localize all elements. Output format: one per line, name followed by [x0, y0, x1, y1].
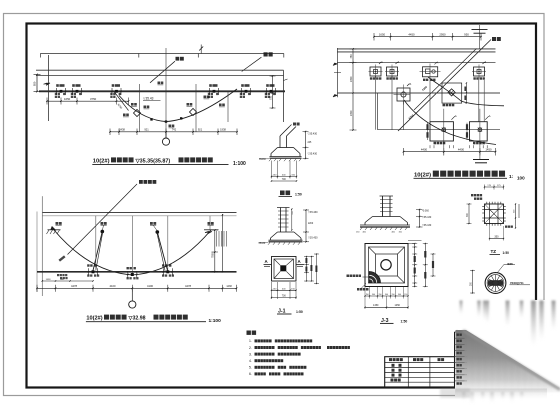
plan3 cluster 93.0: [92, 270, 95, 273]
right vertical dims: [214, 230, 216, 272]
svg-text:4100: 4100: [110, 284, 116, 288]
J-2 bottom dims: [364, 287, 366, 299]
strut nodes: [101, 230, 105, 234]
svg-text:742: 742: [172, 128, 177, 132]
plan3 deep arc: [54, 230, 211, 275]
svg-text:4400: 4400: [458, 148, 465, 152]
A-A cut marks: [264, 264, 272, 266]
svg-text:1650: 1650: [64, 97, 71, 101]
plan3 top lines: [42, 212, 237, 214]
D1 right vertical dim: [305, 132, 307, 159]
J-2 plan square: [365, 244, 408, 287]
plan1 main wall line: [39, 90, 285, 92]
svg-text:1650: 1650: [379, 32, 386, 36]
plan2 left vertical dimension: [352, 49, 354, 130]
label M4 leader: [176, 57, 180, 61]
right support hatch: [204, 229, 219, 231]
svg-text:3.: 3.: [249, 352, 252, 356]
D2 footing: [278, 231, 295, 233]
svg-text:2200: 2200: [308, 223, 314, 225]
svg-text:A: A: [437, 61, 439, 65]
svg-text:10(2#): 10(2#): [86, 316, 102, 322]
svg-text:▽35.430: ▽35.430: [308, 211, 318, 214]
plan2 lower arc: [404, 100, 496, 145]
svg-text:1:50: 1:50: [503, 251, 510, 255]
plan1 arc dimension line: [110, 131, 237, 133]
svg-text:750: 750: [269, 95, 272, 100]
svg-text:1:100: 1:100: [209, 318, 222, 324]
left support hatch: [48, 229, 61, 231]
svg-text:1938: 1938: [220, 128, 226, 132]
big footing at 469.5,121.7: [470, 122, 488, 141]
plan2 left axis vertical: [337, 48, 339, 97]
axis symbol top: [479, 25, 481, 49]
TZ left labels: [471, 194, 473, 196]
svg-text:▽35.430: ▽35.430: [422, 216, 432, 219]
J-2 right dim: [419, 210, 421, 228]
fan labels: [363, 276, 370, 278]
diamond node left: [133, 109, 140, 116]
svg-text:150: 150: [392, 294, 395, 296]
TZ top dims: [485, 186, 504, 188]
svg-text:1:50: 1:50: [296, 310, 303, 314]
svg-text:J-3: J-3: [381, 318, 389, 324]
svg-text:A: A: [485, 60, 487, 64]
svg-text:▽32.98: ▽32.98: [128, 316, 146, 322]
big footing at 430.0,121.7: [430, 122, 453, 141]
plan2 mid horizontal: [337, 92, 500, 94]
small footing at 392.0,71.5: [387, 67, 398, 76]
svg-text:4400: 4400: [421, 148, 428, 152]
svg-text:1:100: 1:100: [233, 161, 246, 167]
arc small nodes: [150, 118, 152, 120]
left grid vertical: [48, 55, 50, 121]
detail D1: bent column section: [279, 136, 281, 148]
svg-text:2450: 2450: [350, 76, 353, 82]
svg-text:1.: 1.: [249, 339, 252, 343]
svg-text:2.: 2.: [249, 346, 252, 350]
svg-text:35430: 35430: [259, 158, 266, 161]
svg-text:10(2#): 10(2#): [414, 172, 431, 178]
svg-text:-0.060: -0.060: [422, 210, 429, 213]
svg-text:3750: 3750: [90, 97, 97, 101]
svg-text:2438: 2438: [119, 128, 125, 132]
watermark white base: [455, 300, 560, 406]
wide footing at 430: [423, 67, 438, 77]
svg-text:▽35.430: ▽35.430: [422, 224, 432, 227]
pile circle: [485, 273, 506, 294]
svg-text:A: A: [398, 60, 400, 64]
D2 right vertical dim: [305, 210, 307, 242]
svg-text:A: A: [410, 82, 412, 86]
plan1 dimension line lower-left: [47, 100, 129, 102]
column cluster x=214: [213, 90, 216, 93]
svg-text:1:50: 1:50: [295, 193, 302, 197]
TZ column section: [485, 204, 504, 224]
svg-text:700: 700: [282, 178, 287, 181]
quarter fan hatch: [369, 272, 380, 283]
svg-text:4.: 4.: [249, 359, 252, 363]
left arrow: [44, 83, 51, 85]
svg-text:1450: 1450: [395, 304, 401, 307]
svg-text:100: 100: [517, 176, 525, 181]
plan2 upper arc: [428, 77, 504, 106]
svg-text:1:50: 1:50: [401, 319, 408, 323]
svg-text:▽35.430: ▽35.430: [308, 153, 318, 156]
svg-text:2450: 2450: [350, 110, 353, 116]
plan1 grid verticals: [139, 84, 141, 132]
plan3 dim line: [37, 287, 237, 289]
footing with circle (column TZ): [397, 88, 410, 101]
svg-text:▽35.430: ▽35.430: [308, 237, 318, 240]
svg-text:2950: 2950: [439, 32, 446, 36]
svg-text:300: 300: [385, 294, 388, 296]
svg-text:150: 150: [366, 294, 369, 296]
small footing at 479.0,71.5: [474, 67, 485, 76]
svg-text:921: 921: [198, 128, 203, 132]
svg-text:1450: 1450: [373, 304, 379, 307]
svg-text:850: 850: [33, 81, 37, 86]
svg-text:1:: 1:: [509, 174, 514, 180]
D1 extension lines + dims: [271, 161, 273, 179]
svg-text:1450: 1450: [485, 148, 492, 152]
detail D2: column section: [277, 207, 290, 209]
svg-text:700: 700: [282, 295, 287, 298]
title block left edge: [454, 332, 456, 387]
watermark drips: [460, 301, 556, 347]
small square structure: [442, 83, 462, 103]
svg-text:▽35.35(35.87): ▽35.35(35.87): [135, 159, 171, 165]
plan1 arc (curved beam): [119, 89, 237, 122]
plan2 top double wall lines: [337, 48, 496, 50]
svg-text:A: A: [455, 114, 457, 118]
svg-text:▽35.430: ▽35.430: [308, 133, 318, 136]
plan3 circle: [131, 288, 133, 301]
label ramp top: [264, 52, 268, 56]
column cluster x=271: [270, 90, 273, 93]
svg-text:4100: 4100: [147, 284, 153, 288]
J-2 right dim chains: [414, 244, 416, 287]
TZ bottom dim: [489, 226, 491, 241]
watermark main triangle: [456, 330, 560, 393]
small upper dim segment: [42, 280, 93, 282]
J-1 bottom dims: [271, 282, 273, 299]
svg-text:350: 350: [494, 236, 499, 239]
left vertical dimension: [36, 75, 38, 92]
plan2 long verticals: [375, 76, 377, 130]
D1 footing: [278, 147, 294, 149]
svg-text:7850: 7850: [212, 252, 215, 258]
diagonal 6250: [114, 92, 129, 111]
column cluster x=61: [60, 90, 63, 93]
plan1 center circle: [165, 132, 167, 138]
watermark lower fade: [462, 392, 524, 404]
notes header: [247, 331, 251, 335]
plan2 bottom horizontal: [378, 129, 501, 131]
J-2 column stem: [380, 195, 394, 197]
diamond node right: [189, 108, 196, 115]
D2 inner dim: [291, 209, 293, 230]
plan2 ramp diagonal: [398, 40, 491, 132]
right vertical dim plan1: [272, 76, 274, 108]
svg-text:▽35.43: ▽35.43: [143, 97, 154, 101]
svg-text:A: A: [489, 114, 491, 118]
axis terminator double bars: [479, 152, 481, 159]
svg-text:10(2#): 10(2#): [93, 159, 110, 165]
svg-text:6.: 6.: [249, 372, 252, 376]
bottom-left gray wash: [440, 388, 470, 398]
J-2 footing section: [373, 216, 401, 218]
plan1 top boundary line: [40, 53, 283, 55]
svg-text:950: 950: [464, 32, 469, 36]
svg-text:4450: 4450: [408, 32, 415, 36]
svg-text:150: 150: [404, 294, 407, 296]
svg-text:300: 300: [372, 294, 375, 296]
svg-text:4478: 4478: [71, 284, 77, 288]
parallelogram mark: [59, 255, 66, 261]
TZ left dim: [468, 204, 470, 224]
plan2 bottom dimension line: [404, 151, 496, 153]
plan2 top dimension line: [374, 36, 481, 38]
svg-text:1438: 1438: [46, 279, 52, 281]
title block comb marks redrawn over white: [454, 332, 456, 387]
column cluster x=116.5: [115, 90, 118, 93]
svg-text:300: 300: [398, 294, 401, 296]
J-1 right dims: [306, 257, 308, 282]
plan3 cluster 167.8: [166, 270, 169, 273]
svg-text:750: 750: [350, 54, 353, 59]
svg-text:Φ25: Φ25: [507, 262, 513, 266]
svg-text:7Φ18@711: 7Φ18@711: [510, 281, 524, 285]
TZ right dims: [515, 204, 517, 228]
leader to yiceng pingtai: [68, 184, 138, 255]
svg-text:150: 150: [379, 294, 382, 296]
svg-text:921: 921: [144, 128, 149, 132]
plan3 grid verticals: [95, 216, 97, 270]
svg-text:4478: 4478: [185, 284, 191, 288]
svg-text:TZ: TZ: [491, 249, 497, 254]
column cluster x=246: [245, 90, 248, 93]
struts: [93, 232, 102, 271]
J-2 top-right ext ticks: [408, 240, 422, 242]
column cluster x=77: [76, 90, 79, 93]
plan3 wall line: [37, 271, 237, 273]
plan3 left verticals: [41, 196, 43, 296]
comb marks over watermark: [455, 337, 465, 339]
small footing at 375.5,71.5: [370, 67, 381, 76]
svg-text:5.: 5.: [249, 366, 252, 370]
pile left dim: [472, 271, 474, 294]
svg-text:A: A: [381, 60, 383, 64]
small text left of wall: [57, 274, 59, 276]
axis slash tick: [199, 47, 203, 51]
plan1 horizontal wall lines: [36, 69, 284, 71]
D1 title: [280, 191, 285, 196]
fenbao table: [385, 357, 455, 388]
J-1 plan square: [272, 257, 297, 282]
svg-text:1438: 1438: [226, 285, 232, 288]
plan3 cluster 132.3: [131, 273, 134, 276]
